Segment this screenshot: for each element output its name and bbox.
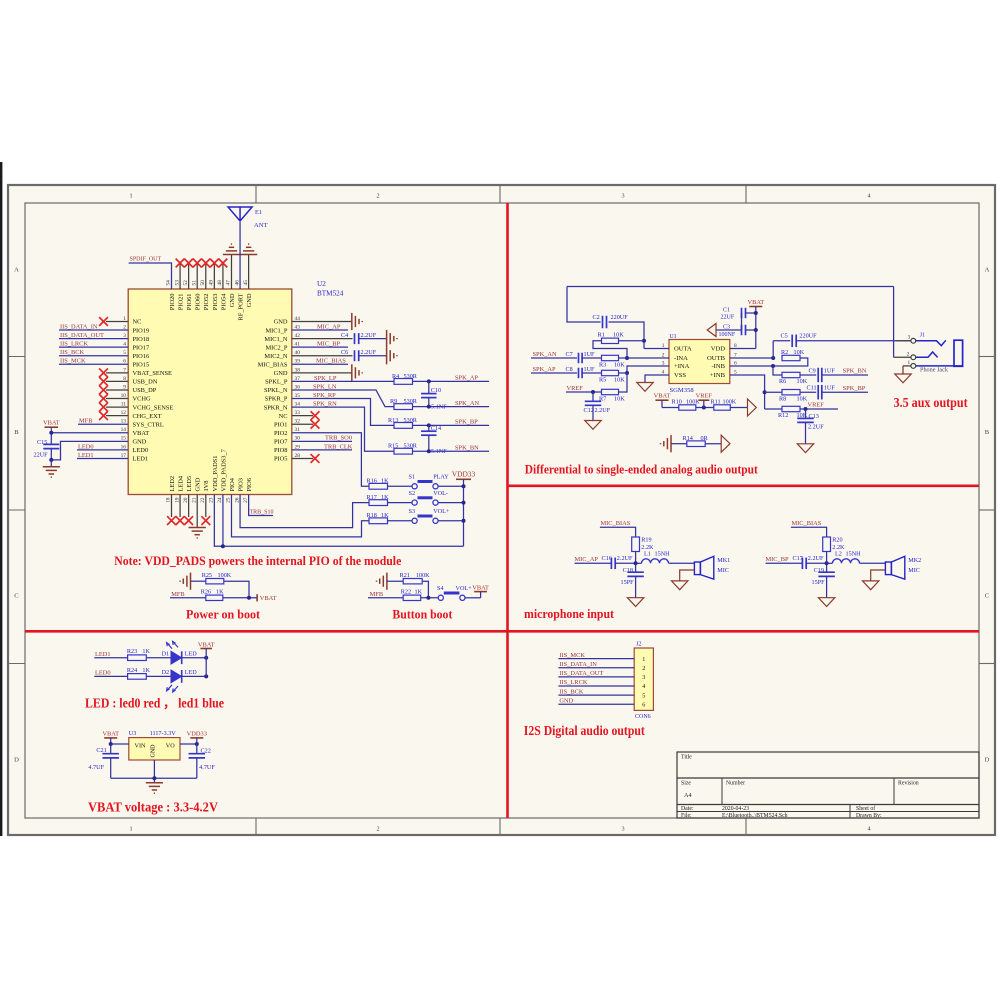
- svg-text:NC: NC: [279, 413, 288, 420]
- svg-text:VDD33: VDD33: [187, 730, 207, 737]
- pin 32 stub: [292, 423, 313, 425]
- pin 1 stub: [106, 321, 128, 323]
- junction C10 top: [427, 379, 431, 383]
- svg-text:1K: 1K: [381, 478, 389, 485]
- wire R25 to VBAT node: [224, 581, 249, 598]
- svg-text:IIS_BCK: IIS_BCK: [559, 688, 584, 695]
- wire jack pin1 to ground: [903, 365, 911, 367]
- pin 53 stub top: [179, 263, 181, 289]
- svg-text:R11: R11: [711, 399, 721, 406]
- ground triangle vref right: [748, 399, 757, 416]
- svg-text:SPKR_P: SPKR_P: [265, 396, 288, 403]
- svg-text:R13: R13: [388, 417, 398, 424]
- wire R12 row: [765, 408, 782, 410]
- frame column ticks bottom: [255, 818, 257, 835]
- LED D1 emission arrows: [167, 641, 178, 648]
- svg-text:TRB_S10: TRB_S10: [250, 509, 274, 515]
- pin 50 stub top: [205, 263, 207, 289]
- svg-text:4: 4: [867, 193, 870, 200]
- svg-text:VDD33: VDD33: [452, 470, 476, 479]
- phone jack sleeve line: [916, 365, 963, 367]
- wire C5 to jack pin3: [796, 340, 911, 342]
- svg-text:4: 4: [642, 683, 645, 690]
- svg-text:PIO2: PIO2: [274, 430, 288, 437]
- title block outline: [677, 752, 979, 818]
- wire VO to VDD33: [180, 743, 197, 745]
- wire R12 to VREF: [800, 408, 838, 410]
- svg-text:1: 1: [129, 193, 132, 200]
- junction D2 rail: [204, 674, 208, 678]
- svg-text:E1: E1: [255, 209, 262, 216]
- wire pin 1 OUTA: [644, 348, 669, 350]
- svg-text:15NH: 15NH: [846, 551, 862, 558]
- svg-text:R20: R20: [832, 537, 842, 544]
- wire net MFB pin13: [78, 423, 128, 425]
- svg-text:VSS: VSS: [674, 372, 686, 379]
- svg-text:LED0: LED0: [95, 670, 111, 677]
- svg-text:B: B: [985, 429, 990, 436]
- wire PIO4 to R18: [231, 495, 369, 537]
- wire R8 row: [765, 391, 782, 393]
- frame row ticks left: [8, 356, 25, 358]
- phone jack J1 pin3 lead: [896, 340, 911, 342]
- svg-text:MIC: MIC: [908, 567, 920, 574]
- resistor R26: [206, 595, 223, 600]
- wire R4 to SPK_AP: [413, 380, 490, 382]
- junction D1 rail: [204, 656, 208, 660]
- power port VREF: [698, 399, 709, 401]
- junction C3 VBAT: [754, 328, 758, 332]
- svg-text:VBAT_SENSE: VBAT_SENSE: [133, 370, 173, 377]
- svg-text:R10: R10: [672, 399, 682, 406]
- wire net GND i2s: [558, 703, 634, 705]
- wire R26 to VBAT port: [223, 597, 257, 599]
- ground symbol pin 44: [351, 313, 353, 330]
- svg-text:SPK_AP: SPK_AP: [533, 366, 557, 373]
- svg-text:PIO20: PIO20: [169, 294, 176, 311]
- page left edge line: [0, 162, 2, 836]
- capacitor C18: [635, 563, 637, 572]
- svg-text:10K: 10K: [797, 395, 808, 402]
- phone jack J1 pad 1: [911, 364, 916, 369]
- wire R16 to S1: [388, 485, 413, 487]
- svg-text:VBAT: VBAT: [43, 420, 60, 427]
- junction R1 right: [642, 339, 646, 343]
- svg-text:VBAT: VBAT: [260, 595, 277, 602]
- svg-text:USB_DP: USB_DP: [133, 387, 157, 394]
- phone jack body: [954, 340, 963, 366]
- svg-text:2: 2: [907, 351, 910, 357]
- svg-text:Button boot: Button boot: [392, 607, 453, 622]
- capacitor C13: [805, 409, 807, 418]
- svg-text:MIC_BP: MIC_BP: [317, 341, 341, 348]
- svg-text:49: 49: [209, 280, 215, 286]
- svg-text:S4: S4: [437, 585, 444, 592]
- wire R22 to S4: [421, 597, 439, 599]
- svg-text:PIO54: PIO54: [220, 293, 227, 310]
- svg-text:18: 18: [166, 497, 172, 503]
- ground triangle VSS: [637, 383, 653, 392]
- svg-text:10K: 10K: [614, 395, 625, 402]
- svg-text:Number: Number: [726, 781, 745, 787]
- wire reg GND down: [153, 760, 155, 778]
- svg-text:GND: GND: [133, 439, 147, 446]
- svg-text:VDD_PADS1: VDD_PADS1: [212, 456, 219, 492]
- pin 51 stub top: [196, 263, 198, 289]
- svg-text:PIO7: PIO7: [274, 439, 288, 446]
- wire net TRB_S10 pin 27: [249, 495, 273, 516]
- junction C1 VBAT: [754, 311, 758, 315]
- wire R17 to S2: [388, 502, 413, 504]
- wire net IIS_MCK: [59, 363, 128, 365]
- svg-text:22: 22: [200, 497, 206, 503]
- svg-text:C22: C22: [201, 748, 211, 755]
- svg-text:PIO15: PIO15: [133, 362, 150, 369]
- svg-text:2: 2: [642, 665, 645, 672]
- wire net LED0 pin16: [77, 449, 128, 451]
- svg-text:SPK_BN: SPK_BN: [455, 444, 479, 451]
- svg-text:PIO4: PIO4: [229, 477, 236, 491]
- capacitor C16: [610, 558, 612, 570]
- red divider horizontal full: [25, 630, 979, 633]
- pin 19 stub bottom: [179, 495, 181, 518]
- svg-text:100K: 100K: [723, 399, 737, 406]
- svg-text:LED : led0 red ， led1 blue: LED : led0 red ， led1 blue: [85, 696, 224, 711]
- svg-text:+INA: +INA: [674, 363, 690, 370]
- ground triangle mic MK1: [672, 581, 688, 590]
- svg-text:MIC_AP: MIC_AP: [575, 556, 599, 563]
- wire aux top left: [567, 286, 894, 288]
- svg-text:C12: C12: [584, 407, 594, 414]
- power symbol VBAT reg: [104, 737, 117, 739]
- svg-text:VREF: VREF: [567, 385, 584, 392]
- wire VBAT led rail: [205, 649, 207, 677]
- no-connect X pin 10: [99, 394, 108, 403]
- svg-text:LED5: LED5: [186, 476, 193, 492]
- wire pin15 GND to C15: [51, 441, 128, 460]
- svg-text:L1: L1: [644, 551, 651, 558]
- wire R20 to node: [826, 552, 828, 564]
- svg-text:C18: C18: [623, 567, 633, 574]
- capacitor C3: [741, 325, 743, 336]
- svg-text:R19: R19: [641, 537, 651, 544]
- junction R1 to -INA: [625, 356, 629, 360]
- svg-text:C5: C5: [781, 333, 788, 340]
- frame column ticks top: [255, 185, 257, 203]
- wire net IIS_BCK: [59, 355, 128, 357]
- svg-text:ANT: ANT: [254, 222, 268, 229]
- pin 12 stub: [106, 415, 128, 417]
- svg-text:D: D: [14, 757, 19, 764]
- microphone MK1: [694, 562, 700, 575]
- svg-text:C7: C7: [566, 351, 573, 358]
- svg-text:MFB: MFB: [171, 591, 185, 598]
- svg-text:VO: VO: [166, 742, 175, 749]
- svg-text:PLAY: PLAY: [433, 474, 449, 481]
- wire C2 to pin1 node: [609, 322, 645, 349]
- resistor R7: [602, 389, 619, 394]
- wire net MIC_BIAS pin 39: [292, 363, 348, 365]
- svg-text:U2: U2: [317, 280, 326, 288]
- resistor R21: [403, 579, 422, 584]
- svg-text:VBAT: VBAT: [198, 641, 215, 648]
- svg-text:LED0: LED0: [133, 447, 149, 454]
- svg-text:54: 54: [166, 280, 172, 286]
- svg-text:51: 51: [191, 280, 197, 286]
- wire R7 to node: [619, 373, 628, 392]
- svg-text:3.5 aux output: 3.5 aux output: [894, 395, 968, 410]
- wire pin 5 +INB riser: [730, 375, 765, 409]
- svg-text:0R: 0R: [701, 435, 709, 442]
- junction VBAT C21: [109, 742, 113, 746]
- wire to gnd triangle opamp vdd: [716, 329, 742, 331]
- svg-text:47: 47: [226, 280, 232, 286]
- svg-text:R8: R8: [779, 395, 786, 402]
- svg-text:VOL-: VOL-: [433, 490, 448, 497]
- regulator U3 body: [129, 738, 180, 760]
- wire OUTB riser to C5: [772, 341, 774, 358]
- wire R2 loop to -INB: [773, 358, 808, 366]
- svg-text:Phone Jack: Phone Jack: [920, 367, 949, 374]
- svg-text:S3: S3: [409, 508, 416, 515]
- power symbol VDD33: [456, 478, 471, 480]
- no-connect X pin 50: [201, 259, 210, 268]
- svg-text:2.2UF: 2.2UF: [617, 555, 633, 562]
- svg-text:100K: 100K: [416, 572, 430, 579]
- svg-text:PIO17: PIO17: [133, 344, 150, 351]
- ground symbol pin 47: [223, 254, 240, 256]
- svg-text:LED1: LED1: [95, 651, 111, 658]
- svg-text:R22: R22: [401, 588, 411, 595]
- svg-text:A4: A4: [684, 792, 692, 799]
- pin 52 stub top: [188, 263, 190, 289]
- wire SPK_LP row: [292, 380, 394, 382]
- svg-text:LED2: LED2: [169, 476, 176, 492]
- wire mic MK1 to ground: [680, 570, 695, 581]
- red divider vertical: [506, 203, 509, 818]
- pin 21 GND stub: [196, 495, 198, 528]
- svg-text:C16: C16: [602, 555, 612, 562]
- capacitor C10: [428, 381, 430, 393]
- resistor R15: [394, 448, 413, 454]
- wire R21 to node: [422, 581, 428, 598]
- ground symbol after C6: [386, 347, 388, 364]
- microphone MK2: [885, 562, 891, 575]
- no-connect X pin 9: [99, 386, 108, 395]
- ground triangle C13: [797, 444, 813, 453]
- svg-text:530R: 530R: [404, 417, 418, 424]
- wire pin 3 bend: [627, 366, 669, 373]
- svg-text:2: 2: [376, 826, 379, 833]
- svg-text:22UF: 22UF: [721, 315, 735, 321]
- svg-text:TRB_CLK: TRB_CLK: [324, 443, 353, 450]
- wire net MIC_BP pin 41: [292, 346, 348, 348]
- no-connect X pin 1: [99, 317, 108, 326]
- svg-text:C15: C15: [37, 439, 47, 446]
- svg-text:52: 52: [183, 280, 189, 286]
- svg-text:GND: GND: [246, 293, 253, 307]
- pin 20 stub bottom: [188, 495, 190, 518]
- wire R1 right lead: [619, 340, 645, 342]
- svg-text:J1: J1: [920, 333, 925, 339]
- svg-text:PIO16: PIO16: [133, 353, 150, 360]
- wire C1 C3 left join: [741, 313, 743, 330]
- rail VDD33 vertical: [463, 479, 465, 546]
- red divider horizontal right upper: [508, 484, 980, 487]
- wire pin 6 -INB: [730, 365, 773, 367]
- svg-text:15PF: 15PF: [621, 579, 635, 586]
- svg-text:E:\Bluetooth..\BTM524.Sch: E:\Bluetooth..\BTM524.Sch: [722, 813, 788, 819]
- svg-text:3: 3: [907, 335, 910, 341]
- svg-text:MIC_BIAS: MIC_BIAS: [601, 520, 631, 527]
- svg-text:D: D: [985, 757, 990, 764]
- svg-text:MFB: MFB: [79, 418, 93, 425]
- svg-text:D1: D1: [162, 650, 170, 657]
- capacitor C15: [50, 433, 52, 445]
- svg-text:1UF: 1UF: [584, 366, 596, 373]
- capacitor C21: [110, 744, 112, 754]
- switch S3: [412, 518, 417, 523]
- svg-text:Differential to single-ended a: Differential to single-ended analog audi…: [525, 462, 759, 477]
- svg-text:LED1: LED1: [78, 452, 94, 459]
- resistor R16: [369, 483, 388, 489]
- ground triangle opamp vdd: [707, 324, 716, 337]
- svg-text:R6: R6: [779, 378, 786, 385]
- svg-text:I2S Digital audio output: I2S Digital audio output: [524, 723, 645, 738]
- inductor L1: [642, 559, 669, 564]
- capacitor C14: [428, 425, 430, 431]
- junction VREF mid: [702, 406, 706, 410]
- svg-text:U3: U3: [129, 730, 137, 737]
- svg-text:GND: GND: [229, 293, 236, 307]
- svg-text:MK2: MK2: [908, 557, 921, 564]
- svg-text:+INB: +INB: [710, 372, 726, 379]
- svg-text:LED: LED: [185, 650, 198, 657]
- svg-text:SPK_AN: SPK_AN: [533, 351, 558, 358]
- svg-text:PIO60: PIO60: [195, 294, 202, 311]
- svg-text:Date:: Date:: [681, 806, 694, 812]
- svg-text:3: 3: [621, 826, 624, 833]
- junction +INB R8: [763, 390, 767, 394]
- resistor R18: [369, 518, 388, 524]
- wire R1 left lead route: [593, 341, 627, 358]
- svg-text:Revision: Revision: [898, 781, 919, 787]
- svg-text:R5: R5: [599, 376, 606, 383]
- svg-text:LED1: LED1: [133, 456, 149, 463]
- wire gnd to R14: [671, 443, 687, 445]
- ground symbol button-boot: [386, 573, 388, 590]
- svg-text:530R: 530R: [404, 373, 418, 380]
- svg-text:1: 1: [907, 360, 910, 366]
- inductor L2: [833, 559, 860, 564]
- no-connect X pin 53: [176, 259, 185, 268]
- junction R25 R26: [247, 596, 251, 600]
- switch S2: [412, 500, 417, 505]
- svg-text:1V8: 1V8: [203, 480, 210, 491]
- svg-text:530R: 530R: [404, 398, 418, 405]
- svg-text:GND: GND: [150, 744, 156, 758]
- svg-text:PIO5: PIO5: [274, 456, 288, 463]
- svg-text:C10: C10: [431, 387, 441, 394]
- wire net MIC_BIAS MK1: [600, 527, 636, 537]
- power symbol VBAT boot2: [474, 591, 487, 593]
- wire C16 to node: [615, 562, 635, 564]
- svg-text:C13: C13: [809, 413, 819, 420]
- svg-text:IIS_DATA_OUT: IIS_DATA_OUT: [60, 332, 104, 339]
- title block column lines: [721, 778, 723, 805]
- wire R11 to gnd triangle: [730, 407, 747, 409]
- svg-text:IIS_MCK: IIS_MCK: [559, 652, 585, 659]
- power symbol VBAT led: [200, 648, 212, 650]
- svg-text:48: 48: [217, 280, 223, 286]
- svg-text:microphone input: microphone input: [524, 606, 615, 621]
- svg-text:USB_DN: USB_DN: [133, 379, 158, 386]
- svg-text:R2: R2: [781, 349, 788, 356]
- power symbol VBAT opamp: [749, 306, 762, 308]
- wire mic MK2 to ground: [871, 570, 886, 581]
- wire gnd to R25: [191, 580, 206, 582]
- svg-text:4.7UF: 4.7UF: [199, 764, 215, 771]
- svg-text:VCHG_SENSE: VCHG_SENSE: [133, 404, 174, 411]
- ground symbol pin 21: [189, 527, 206, 529]
- svg-text:100NF: 100NF: [719, 332, 736, 338]
- wire net TRB_SO0 pin 30: [292, 440, 352, 442]
- svg-text:RF_PORT: RF_PORT: [237, 293, 244, 320]
- pin 45 stub: [248, 255, 250, 290]
- wire R24 to D2: [146, 675, 171, 677]
- svg-text:VBAT: VBAT: [102, 730, 119, 737]
- svg-text:VBAT: VBAT: [654, 393, 671, 400]
- svg-text:SPK_LP: SPK_LP: [314, 375, 337, 382]
- svg-text:R26: R26: [201, 588, 211, 595]
- svg-text:MK1: MK1: [717, 557, 730, 564]
- connector J2 body: [634, 648, 653, 710]
- svg-text:R15: R15: [388, 443, 398, 450]
- svg-text:15PF: 15PF: [812, 579, 826, 586]
- svg-text:SPK_RN: SPK_RN: [313, 401, 337, 408]
- svg-text:4: 4: [867, 826, 870, 833]
- svg-text:220UF: 220UF: [799, 333, 817, 340]
- svg-text:MIC_BIAS: MIC_BIAS: [792, 520, 822, 527]
- svg-text:2.2UF: 2.2UF: [361, 332, 377, 339]
- wire net VREF row: [566, 391, 602, 393]
- pin 10 stub: [106, 398, 128, 400]
- junction C12 tap: [591, 390, 595, 394]
- phone jack ring contact: [916, 352, 938, 357]
- resistor R14: [687, 441, 705, 447]
- ground symbol below C15: [50, 460, 52, 467]
- svg-text:1K: 1K: [216, 588, 224, 595]
- resistor R4: [394, 379, 413, 385]
- svg-text:C9: C9: [809, 367, 816, 374]
- wire net IIS_DATA_IN i2s: [558, 667, 634, 669]
- junction VREF C13: [804, 407, 808, 411]
- wire R14 to triangle: [705, 443, 721, 445]
- junction OUTB: [771, 356, 775, 360]
- phone jack J1 pad 3: [911, 338, 916, 343]
- svg-text:SPK_BN: SPK_BN: [843, 368, 867, 375]
- svg-text:10K: 10K: [614, 376, 625, 383]
- wire R8 to C11: [800, 391, 816, 393]
- svg-text:2020-04-23: 2020-04-23: [722, 806, 749, 812]
- no-connect X pin 11: [99, 403, 108, 412]
- svg-text:OUTB: OUTB: [707, 355, 726, 362]
- svg-text:15NH: 15NH: [655, 551, 671, 558]
- svg-text:10K: 10K: [613, 332, 624, 339]
- svg-text:IIS_MCK: IIS_MCK: [60, 358, 86, 365]
- wire R3 to pin 2: [619, 357, 670, 359]
- junction C15 gnd: [49, 458, 53, 462]
